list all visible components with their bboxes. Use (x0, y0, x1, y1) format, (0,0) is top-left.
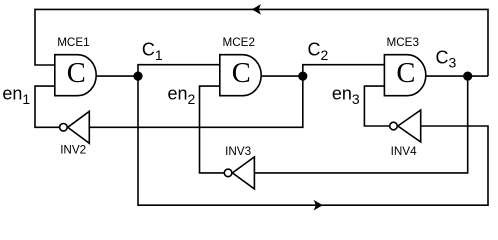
inverter INV4 (390, 110, 421, 158)
svg-text:MCE3: MCE3 (387, 36, 419, 49)
inverter INV3 (224, 145, 254, 189)
C-element MCE2 (220, 36, 261, 96)
wire MCE3 output through node C3 to right edge (426, 75, 488, 77)
wire INV2 input from node C2 (89, 76, 302, 127)
arrow on top wire pointing left (252, 4, 261, 15)
C-element MCE1 (55, 36, 96, 96)
wire node C1 to MCE2 top input (138, 65, 220, 76)
wire MCE2 output to node C2 (261, 75, 303, 77)
node C1 junction dot (133, 72, 142, 81)
wire MCE1 output to node C1 (96, 75, 138, 77)
wire INV3 input from node C3 (254, 76, 467, 173)
wire en3 from INV4 output to MCE3 lower input (364, 86, 389, 126)
svg-text:MCE2: MCE2 (223, 36, 255, 49)
svg-text:INV3: INV3 (225, 145, 251, 158)
node C3 junction dot (463, 72, 472, 81)
arrow on bottom wire pointing right (314, 200, 323, 211)
svg-text:INV2: INV2 (60, 144, 86, 157)
svg-text:INV4: INV4 (391, 145, 417, 158)
wire node C2 to MCE3 top input (303, 65, 385, 76)
node C2 junction dot (298, 72, 307, 81)
wire top feedback from C3 to MCE1 top input (35, 9, 488, 76)
svg-text:C: C (396, 58, 415, 89)
svg-text:MCE1: MCE1 (57, 36, 89, 49)
svg-text:C: C (232, 58, 251, 89)
wire node C1 down along bottom to INV4 input (138, 76, 488, 205)
C-element MCE3 (384, 36, 425, 96)
svg-text:C: C (67, 58, 86, 89)
inverter INV2 (60, 111, 90, 156)
wire en1 from INV2 output to MCE1 lower input (35, 86, 59, 127)
wire en2 from INV3 output to MCE2 lower input (200, 86, 224, 173)
